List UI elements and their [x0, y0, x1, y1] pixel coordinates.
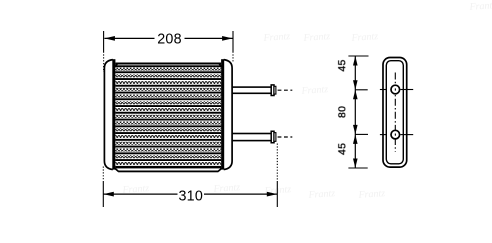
side dim tick hole2 — [355, 133, 368, 135]
right tank — [224, 60, 232, 170]
hole 1 — [391, 85, 400, 94]
bracket inner outline — [386, 61, 403, 164]
bracket outer outline — [383, 58, 407, 168]
watermarks — [121, 0, 492, 201]
bracket vertical centerline — [394, 73, 396, 152]
dimension 208 extension line right — [232, 31, 234, 52]
dimension 310 line — [103, 193, 177, 195]
dimension 310 extension line right — [276, 144, 278, 182]
hole 2 — [391, 130, 400, 139]
dimension 208 extension line left — [103, 31, 105, 52]
svg-text:Frantz: Frantz — [357, 188, 385, 201]
svg-text:45: 45 — [337, 143, 348, 155]
core top side plate — [115, 63, 221, 65]
left tank — [104, 60, 112, 170]
svg-text:80: 80 — [337, 106, 348, 118]
side dimension line — [354, 56, 356, 168]
side dim extension top — [348, 55, 368, 57]
side dim extension bottom — [348, 167, 367, 169]
core fins and tubes — [115, 68, 221, 165]
right header plate — [221, 59, 224, 169]
core bottom side plate — [118, 171, 218, 173]
svg-text:208: 208 — [157, 31, 182, 47]
core bottom tube line — [115, 166, 221, 169]
svg-text:45: 45 — [337, 59, 348, 71]
svg-text:Frantz: Frantz — [350, 31, 378, 44]
dimension 310 extension line left — [102, 167, 104, 182]
svg-text:Frantz: Frantz — [262, 31, 290, 44]
outlet pipe — [232, 131, 292, 143]
svg-text:Frantz: Frantz — [302, 31, 330, 44]
svg-text:Frantz: Frantz — [468, 0, 492, 13]
svg-text:310: 310 — [178, 188, 203, 204]
hole 1 centerline — [380, 89, 387, 91]
side dim tick hole1 — [355, 89, 367, 91]
svg-text:Frantz: Frantz — [307, 188, 335, 201]
hole 2 centerline — [380, 134, 387, 136]
inlet pipe — [232, 85, 292, 96]
svg-text:Frantz: Frantz — [212, 182, 240, 195]
dimension 208 line — [104, 37, 154, 39]
core top tube line — [115, 65, 221, 67]
svg-text:Frantz: Frantz — [300, 84, 328, 97]
left header plate — [112, 59, 115, 169]
